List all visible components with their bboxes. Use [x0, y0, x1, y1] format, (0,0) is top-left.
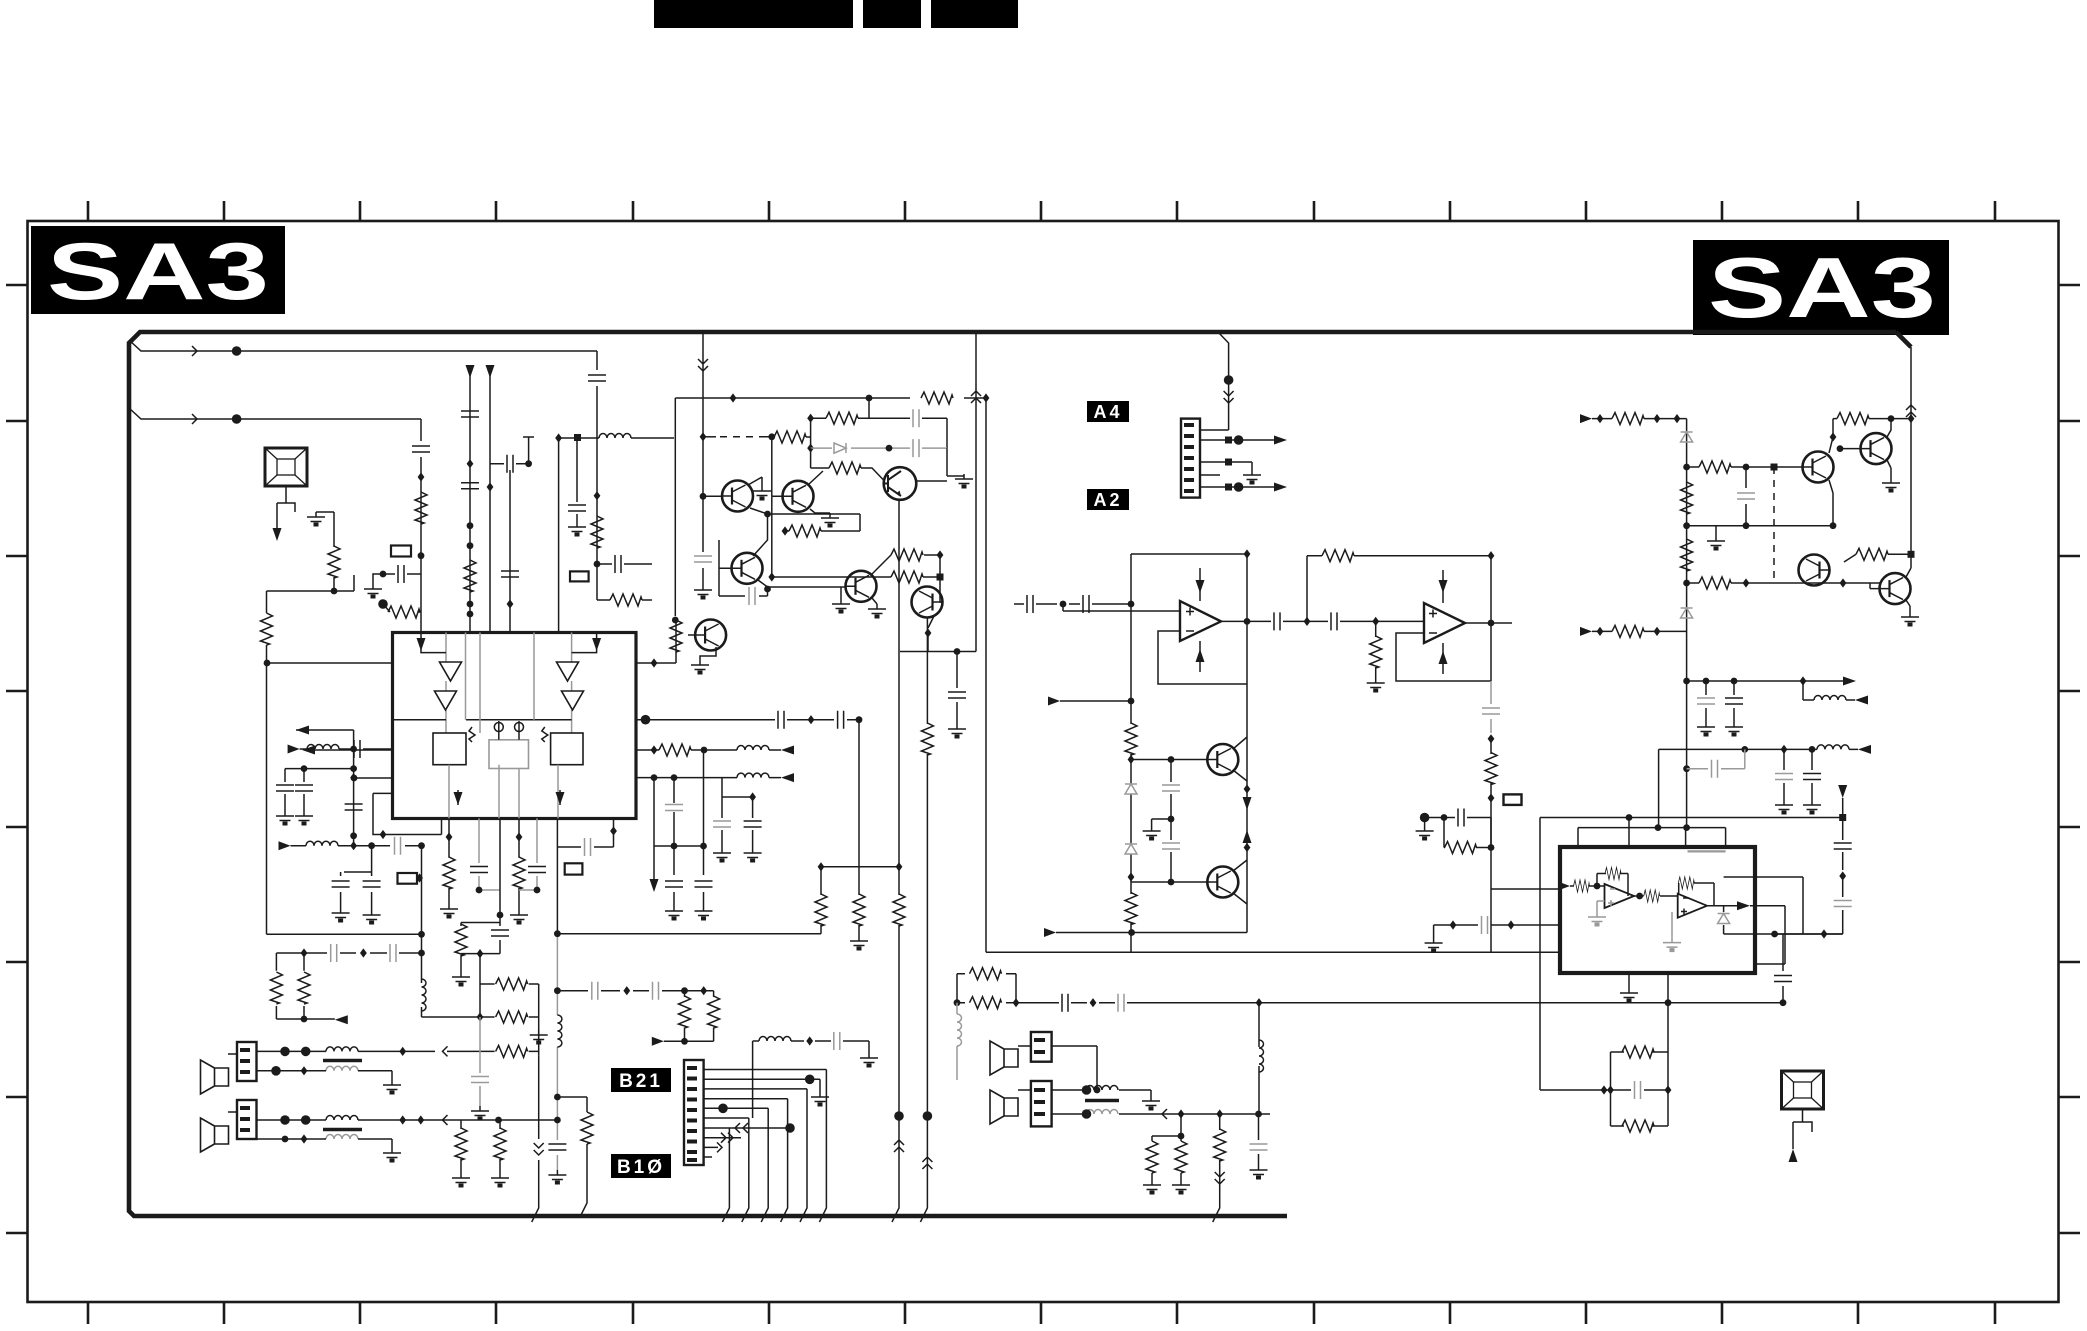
svg-text:SA3: SA3 [47, 227, 269, 317]
svg-text:SA3: SA3 [1708, 241, 1936, 336]
svg-text:B21: B21 [619, 1071, 663, 1092]
svg-text:A2: A2 [1093, 490, 1122, 510]
svg-text:A4: A4 [1093, 402, 1122, 422]
svg-text:B1Ø: B1Ø [617, 1157, 665, 1178]
